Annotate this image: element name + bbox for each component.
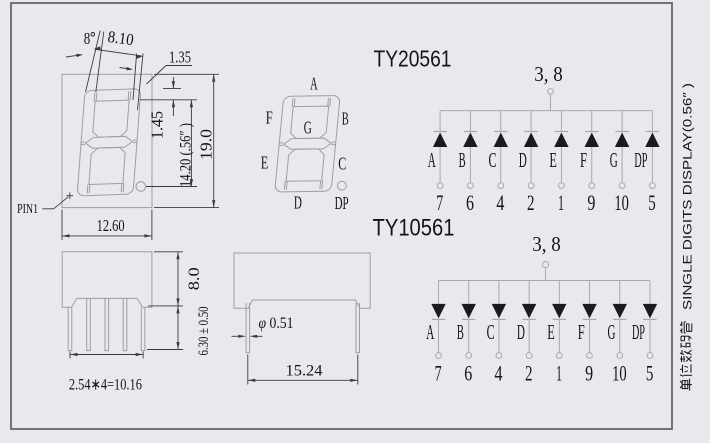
svg-text:G: G <box>607 320 615 344</box>
svg-text:9: 9 <box>585 360 593 385</box>
end view body <box>234 253 370 308</box>
vertical caption CJK char shu 数 <box>680 350 692 362</box>
TY20561 pin terminal circle C <box>498 183 504 189</box>
TY10561 pin terminal circle G <box>617 353 623 359</box>
svg-text:8.0: 8.0 <box>186 267 203 290</box>
svg-text:1.35: 1.35 <box>169 48 191 67</box>
TY20561 pin terminal circle DP <box>650 183 656 189</box>
svg-text:E: E <box>261 152 269 172</box>
TY20561 pin terminal circle F <box>589 183 595 189</box>
svg-text:15.24: 15.24 <box>286 362 323 379</box>
TY10561 pin terminal circle DP <box>647 353 653 359</box>
dimension 14.20 line <box>190 100 192 187</box>
TY10561 branch wire E <box>558 281 560 304</box>
TY10561 diode A (triangle down) <box>431 304 445 319</box>
segment diagram digit 8 outline <box>275 96 341 192</box>
svg-text:DP: DP <box>634 148 647 172</box>
svg-text:5: 5 <box>646 360 654 385</box>
ref line body top right (8.0) <box>154 251 183 253</box>
svg-text:7: 7 <box>436 190 443 215</box>
svg-text:8.10: 8.10 <box>107 27 135 49</box>
svg-text:6: 6 <box>466 190 474 215</box>
TY10561 diode anode bar B <box>462 318 475 320</box>
extension lines right of digit top <box>133 54 137 101</box>
TY20561 branch wire G <box>621 111 623 132</box>
TY10561 branch wire G <box>619 281 621 304</box>
dimension 15.24 extension lines <box>247 355 249 385</box>
TY10561 branch wire B <box>468 281 470 304</box>
svg-text:8: 8 <box>84 29 91 48</box>
svg-text:E: E <box>549 148 557 172</box>
svg-text:G: G <box>304 118 312 138</box>
TY10561 diode C (triangle down) <box>492 304 506 319</box>
dimension 2.54 line <box>70 354 143 356</box>
svg-text:F: F <box>580 148 587 172</box>
TY10561 diode anode bar DP <box>643 318 656 320</box>
svg-text:DP: DP <box>335 193 349 213</box>
svg-text:φ 0.51: φ 0.51 <box>259 315 294 332</box>
dimension 12.60 line <box>62 235 152 237</box>
svg-text:TY20561: TY20561 <box>374 46 452 72</box>
TY10561 pin terminal circle F <box>587 353 593 359</box>
TY20561 branch wire F <box>591 111 593 132</box>
TY20561 branch wire DP <box>651 111 653 132</box>
TY10561 pin terminal circle A <box>436 353 442 359</box>
dimension 6.30 line <box>177 306 179 350</box>
svg-text:PIN1: PIN1 <box>17 201 38 216</box>
ref line pin bottom right <box>147 349 183 351</box>
TY10561 pin terminal circle B <box>466 353 472 359</box>
TY20561 diode cathode bar DP <box>646 131 659 133</box>
svg-text:A: A <box>426 320 434 344</box>
TY20561 bus wire <box>440 110 652 112</box>
dimension 19.0 line <box>213 74 215 207</box>
arrow to angle line <box>66 55 81 57</box>
svg-text:C: C <box>488 148 496 172</box>
svg-text:D: D <box>517 320 525 344</box>
TY10561 diode anode bar C <box>492 318 505 320</box>
ref line body bottom right <box>148 305 183 307</box>
front view package body <box>62 74 152 207</box>
TY10561 diode G (triangle down) <box>613 304 627 319</box>
TY20561 branch wire C <box>500 111 502 132</box>
svg-text:7: 7 <box>435 360 442 385</box>
TY20561 diode cathode bar B <box>464 131 477 133</box>
TY10561 branch wire D <box>528 281 530 304</box>
svg-text:12.60: 12.60 <box>97 216 125 235</box>
front view digit 8 outline <box>77 89 141 196</box>
dimension 8.10 slanted line <box>95 49 142 56</box>
TY10561 branch wire F <box>589 281 591 304</box>
svg-text:4: 4 <box>496 190 504 215</box>
TY10561 diode DP (triangle down) <box>643 304 657 319</box>
svg-text:2: 2 <box>525 360 533 385</box>
TY10561 branch wire A <box>438 281 440 304</box>
TY20561 diode cathode bar E <box>555 131 568 133</box>
end view pin right <box>356 303 360 353</box>
TY20561 diode cathode bar D <box>524 131 537 133</box>
svg-text:2: 2 <box>527 190 535 215</box>
svg-text:4: 4 <box>495 360 503 385</box>
svg-text:10: 10 <box>614 190 629 215</box>
svg-text:DP: DP <box>632 320 645 344</box>
TY20561 diode cathode bar C <box>494 131 507 133</box>
small arrow middle <box>120 68 132 70</box>
TY10561 branch wire DP <box>649 281 651 304</box>
TY10561 pin terminal circle C <box>496 353 502 359</box>
TY20561 pin terminal circle G <box>619 183 625 189</box>
TY10561 riser wire <box>545 268 547 281</box>
TY20561 diode F (triangle up) <box>585 133 600 148</box>
side view pin 4 <box>123 298 127 350</box>
TY10561 diode anode bar A <box>432 318 445 320</box>
TY20561 branch wire E <box>560 111 562 132</box>
svg-text:3, 8: 3, 8 <box>532 232 561 256</box>
svg-text:G: G <box>610 148 618 172</box>
segment diagram DP circle <box>338 181 347 190</box>
svg-text:SINGLE DIGITS DISPLAY(0.56″ ): SINGLE DIGITS DISPLAY(0.56″ ) <box>683 83 695 310</box>
side view body <box>62 252 152 307</box>
svg-text:A: A <box>428 148 436 172</box>
TY20561 diode B (triangle up) <box>463 133 477 148</box>
svg-text:B: B <box>459 148 466 172</box>
TY10561 branch wire C <box>498 281 500 304</box>
TY20561 diode G (triangle up) <box>615 133 629 148</box>
TY20561 branch wire B <box>469 111 471 132</box>
TY10561 bus wire <box>439 280 650 282</box>
svg-text:C: C <box>487 320 495 344</box>
pin diameter arrows <box>232 335 244 337</box>
svg-text:C: C <box>338 154 346 174</box>
TY20561 diode cathode bar G <box>615 131 628 133</box>
vertical caption CJK char wei 位 <box>680 364 692 376</box>
TY20561 branch wire A <box>439 111 441 132</box>
ref line body bottom right <box>154 207 219 209</box>
front view decimal point circle <box>136 182 146 192</box>
svg-text:TY10561: TY10561 <box>373 215 455 242</box>
TY20561 riser wire <box>550 94 552 111</box>
ref line DP center right <box>146 186 197 188</box>
TY20561 pin terminal circle B <box>468 183 474 189</box>
side view pin 5 <box>141 307 145 350</box>
vertical caption CJK char dan 单 <box>680 379 692 391</box>
svg-text:D: D <box>519 148 527 172</box>
svg-text:A: A <box>310 73 318 93</box>
dimension 15.24 line <box>248 379 358 381</box>
TY10561 diode anode bar D <box>522 318 535 320</box>
TY10561 diode E (triangle down) <box>552 304 566 319</box>
side view pin 1 <box>68 307 72 350</box>
svg-text:F: F <box>266 107 273 127</box>
dimension 1.45 arrows <box>172 77 174 89</box>
dimension 12.60 extension lines <box>61 210 63 241</box>
TY20561 diode D (triangle up) <box>524 133 538 148</box>
svg-text:D: D <box>294 193 302 213</box>
TY20561 diode cathode bar A <box>433 131 446 133</box>
TY20561 branch wire D <box>530 111 532 132</box>
TY20561 pin terminal circle D <box>528 183 534 189</box>
TY10561 diode B (triangle down) <box>462 304 476 319</box>
svg-text:5: 5 <box>648 190 656 215</box>
TY10561 common node circle <box>542 262 548 268</box>
pin1 marker cross <box>67 195 74 197</box>
svg-text:6: 6 <box>464 360 472 385</box>
TY10561 diode F (triangle down) <box>582 304 597 319</box>
svg-text:B: B <box>342 108 349 128</box>
side view pin 3 <box>105 298 109 350</box>
svg-text:9: 9 <box>587 190 595 215</box>
TY10561 pin terminal circle D <box>526 353 532 359</box>
TY20561 diode cathode bar F <box>585 131 598 133</box>
svg-text:1: 1 <box>558 190 564 215</box>
dimension 2.54 extension lines <box>69 352 71 359</box>
svg-text:14.20 (.56″ ): 14.20 (.56″ ) <box>177 123 194 187</box>
ref line digit top right <box>163 88 181 90</box>
end view pin left <box>246 303 250 353</box>
svg-text:1: 1 <box>556 360 562 385</box>
svg-text:10: 10 <box>612 360 627 385</box>
TY10561 diode D (triangle down) <box>522 304 536 319</box>
ref line body top right <box>154 73 219 75</box>
TY20561 common node circle <box>548 89 554 95</box>
TY10561 pin terminal circle E <box>556 353 562 359</box>
TY20561 diode A (triangle up) <box>433 133 447 148</box>
TY10561 diode anode bar G <box>613 318 626 320</box>
vertical caption CJK char ma 码 <box>681 336 692 348</box>
TY20561 pin terminal circle E <box>559 183 565 189</box>
TY10561 diode anode bar F <box>583 318 596 320</box>
side view pin 2 <box>87 298 91 350</box>
TY20561 pin terminal circle A <box>437 183 443 189</box>
svg-text:19.0: 19.0 <box>197 129 216 160</box>
angle extension lines 8 deg <box>86 31 101 93</box>
TY20561 diode DP (triangle up) <box>645 133 659 148</box>
TY20561 diode E (triangle up) <box>554 133 568 148</box>
svg-text:2.54∗4=10.16: 2.54∗4=10.16 <box>69 377 142 394</box>
svg-text:E: E <box>547 320 555 344</box>
TY20561 diode C (triangle up) <box>494 133 508 148</box>
vertical caption CJK char guan 管 <box>680 321 692 333</box>
dimension 8.0 line <box>177 252 179 306</box>
svg-text:3, 8: 3, 8 <box>534 62 563 86</box>
ref line segA bottom right <box>140 99 197 101</box>
svg-text:F: F <box>578 320 585 344</box>
TY10561 diode anode bar E <box>553 318 566 320</box>
svg-text:6.30 ± 0.50: 6.30 ± 0.50 <box>196 307 212 356</box>
svg-text:1.45: 1.45 <box>147 111 166 139</box>
svg-text:B: B <box>457 320 464 344</box>
